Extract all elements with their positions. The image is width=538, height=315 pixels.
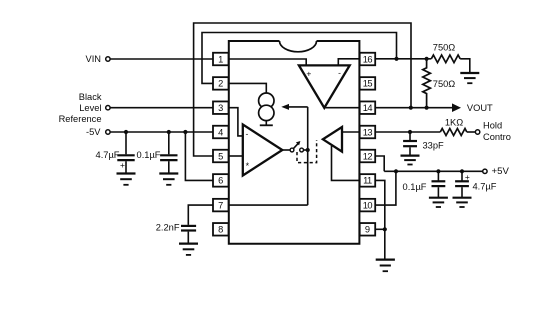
svg-text:Black: Black [79, 92, 102, 102]
buffer amplifier A2 [323, 127, 342, 152]
capacitor C5 4.7uF [455, 171, 470, 197]
svg-text:750Ω: 750Ω [433, 79, 456, 89]
junction dot pin9 / pin11 [383, 227, 387, 231]
pin 3 box [213, 101, 229, 114]
pin 5 box [213, 150, 229, 163]
svg-text:VIN: VIN [86, 54, 102, 64]
wire pin7 to C3 2.2nF [188, 205, 213, 225]
junction dot -5V / C1 [124, 130, 128, 134]
resistor R2 750ohm (vertical) [423, 59, 431, 108]
wire pin5 internal to amp input [229, 155, 243, 157]
VIN terminal [106, 57, 110, 61]
svg-text:-5V: -5V [86, 127, 101, 137]
wire switch node vertical [307, 107, 309, 205]
svg-text:-: - [338, 68, 341, 78]
svg-text:6: 6 [218, 176, 223, 186]
Hold Control terminal [475, 130, 479, 134]
junction dot pin13 / C33pF [408, 130, 412, 134]
wire buffer output to pin13 [342, 131, 360, 133]
svg-text:+5V: +5V [492, 166, 510, 177]
svg-text:+: + [306, 68, 311, 78]
pin 11 box [360, 174, 376, 187]
svg-text:-: - [245, 128, 248, 138]
svg-text:0.1µF: 0.1µF [137, 150, 161, 160]
pin 2 box [213, 77, 229, 90]
+5V terminal [483, 169, 487, 173]
wire feedback loop pin5 to VOUT node [194, 23, 411, 156]
Black Level Reference terminal [106, 106, 110, 110]
pin 16 box [360, 53, 376, 66]
wire VIN to pin1 [110, 58, 213, 60]
pin 15 box [360, 77, 376, 90]
ground below pin9 [376, 260, 395, 272]
svg-text:9: 9 [365, 225, 370, 235]
control arrow to current source [281, 104, 307, 110]
pin 9 box [360, 223, 376, 236]
ground below C4 [429, 198, 448, 207]
switch S1 [282, 141, 307, 152]
svg-text:0.1µF: 0.1µF [403, 182, 427, 192]
pin 1 box [213, 53, 229, 66]
capacitor 2.2nF [181, 226, 196, 244]
op-amp U1A (clamp comparator) [299, 65, 350, 108]
wire pin13 external to R3 [375, 131, 440, 133]
capacitor C4 0.1uF [432, 171, 446, 197]
wire op-amp output to pin14 [324, 107, 359, 109]
svg-text:4: 4 [218, 127, 223, 137]
pin 10 box [360, 199, 376, 212]
svg-text:1KΩ: 1KΩ [445, 118, 463, 128]
wire R1 to ground [460, 59, 470, 73]
svg-text:15: 15 [363, 79, 373, 89]
svg-text:11: 11 [363, 176, 372, 186]
pin 6 box [213, 174, 229, 187]
svg-text:4.7µF: 4.7µF [473, 181, 497, 191]
wire loop pin2 to pin16 net [202, 33, 397, 84]
wire pin1 internal to op-amp + input [229, 59, 307, 65]
junction dot switch / hold node [306, 148, 310, 152]
svg-text:5: 5 [218, 151, 223, 161]
dashed switch control linkage [297, 140, 317, 163]
svg-text:Contro: Contro [483, 132, 511, 142]
IC body U1 (DIP-16 outline) [229, 41, 360, 244]
svg-text:2.2nF: 2.2nF [156, 222, 180, 232]
ground below 2.2nF [179, 244, 198, 255]
svg-text:Hold: Hold [483, 121, 502, 131]
junction dot VOUT / loop1 [409, 106, 413, 110]
svg-text:10: 10 [363, 200, 373, 210]
svg-text:750Ω: 750Ω [433, 42, 456, 52]
current source I1 [259, 93, 274, 125]
svg-text:+: + [120, 160, 125, 170]
capacitor 33pF [403, 132, 417, 156]
svg-text:33pF: 33pF [423, 140, 445, 150]
wire pin10 external up to rail [375, 171, 396, 205]
pin 14 box [360, 101, 376, 114]
junction dot rail / pin10 [394, 169, 398, 173]
ground below C5 [453, 198, 472, 207]
wire pin9 to ground [384, 229, 386, 259]
ground below C2 [159, 174, 178, 185]
amplifier A1 [243, 125, 282, 176]
pin 13 box [360, 126, 376, 139]
ground below R1 [460, 73, 479, 83]
+5V rail [384, 170, 482, 172]
VOUT arrowhead [452, 103, 461, 112]
svg-text:16: 16 [363, 54, 373, 64]
wire buffer input from pin11 [332, 146, 360, 180]
wire pin3 internal to amp inverting input [229, 108, 243, 136]
Black Level Reference label [59, 92, 102, 124]
junction dot pin16 / loop2 [394, 57, 398, 61]
svg-text:VOUT: VOUT [467, 103, 493, 113]
svg-text:8: 8 [218, 225, 223, 235]
wire pin7 internal to hold node [229, 204, 308, 206]
wire pin12 external to +5V rail [375, 156, 384, 171]
ground below 33pF [401, 156, 420, 165]
pin 8 box [213, 223, 229, 236]
Hold Control label [483, 121, 511, 142]
svg-text:*: * [246, 161, 250, 171]
wire BLR to pin3 [110, 107, 213, 109]
junction dot rail / C4 [436, 169, 440, 173]
junction dot VOUT / R2 [425, 106, 429, 110]
wire pin11 external down to ground net [375, 180, 385, 229]
wire pin9 external [375, 228, 385, 230]
capacitor C1 4.7uF [117, 132, 134, 174]
pin 4 box [213, 126, 229, 139]
svg-text:12: 12 [363, 151, 373, 161]
wire pin14 to VOUT [375, 107, 452, 109]
svg-text:2: 2 [218, 79, 223, 89]
wire R3 to Hold Control terminal [467, 131, 476, 133]
junction dot pin16 / R2 [425, 57, 429, 61]
resistor R3 1Kohm [440, 129, 467, 136]
wire -5V to pin4 [110, 131, 213, 133]
junction dot -5V / pin6 branch [183, 130, 187, 134]
svg-text:Reference: Reference [59, 114, 102, 124]
svg-text:14: 14 [363, 103, 373, 113]
pin 12 box [360, 150, 376, 163]
svg-text:7: 7 [218, 200, 223, 210]
junction dot rail / C5 [460, 169, 464, 173]
svg-text:Level: Level [79, 103, 101, 113]
svg-text:3: 3 [218, 103, 223, 113]
wire pin16 internal to op-amp - input [338, 59, 359, 66]
wire pin2 internal to current source [229, 83, 266, 93]
wire -5V branch to pin6 [185, 132, 213, 180]
junction dot -5V / C2 [167, 130, 171, 134]
-5V terminal [106, 130, 110, 134]
capacitor C2 0.1uF [160, 132, 177, 174]
IC top notch [280, 41, 317, 52]
ground below C1 [117, 174, 136, 185]
svg-text:13: 13 [363, 127, 373, 137]
pin 7 box [213, 199, 229, 212]
svg-text:4.7µF: 4.7µF [96, 150, 120, 160]
wire pin16 external [375, 58, 431, 60]
resistor R1 750ohm [431, 55, 460, 63]
svg-text:1: 1 [218, 54, 223, 64]
